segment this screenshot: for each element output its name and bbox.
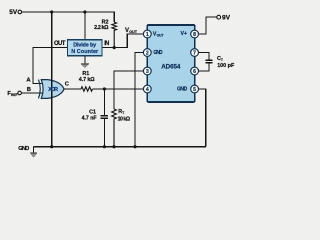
svg-text:OUT: OUT — [54, 41, 66, 47]
pin 7 — [191, 49, 199, 57]
svg-text:REF: REF — [11, 93, 18, 97]
capacitor C1 — [103, 89, 105, 115]
svg-text:2.2 kΩ: 2.2 kΩ — [94, 25, 109, 31]
junction top rail at counter supply — [83, 10, 86, 13]
pin 2 — [143, 49, 151, 57]
svg-text:GND: GND — [177, 86, 188, 92]
wire counter supply vertical — [84, 12, 86, 40]
svg-text:V+: V+ — [181, 31, 188, 37]
wire top 5V rail with corner into R2 — [22, 12, 115, 22]
svg-text:XOR: XOR — [48, 87, 58, 93]
svg-text:6: 6 — [193, 69, 196, 75]
wire counter IN to R2 junction and up to pin 1 — [102, 34, 143, 48]
svg-text:GND: GND — [18, 146, 29, 152]
wire pin 2 down to ground rail — [135, 53, 143, 147]
svg-text:9 V: 9 V — [222, 15, 231, 22]
svg-text:GND: GND — [153, 50, 163, 56]
svg-text:B: B — [27, 87, 31, 93]
junction top rail at XOR supply — [50, 10, 53, 13]
wire pin 3 to RT — [114, 71, 143, 109]
wire XOR supply vertical — [51, 12, 53, 147]
divide-by-N counter box — [68, 40, 103, 56]
svg-text:OUT: OUT — [157, 34, 164, 38]
svg-text:5 V: 5 V — [9, 9, 18, 16]
junction R2 bottom on IN wire — [113, 46, 116, 49]
wire XOR input B — [22, 92, 43, 94]
svg-text:N Counter: N Counter — [71, 49, 99, 55]
svg-text:3: 3 — [146, 69, 149, 75]
xor gate U2 body — [41, 80, 64, 99]
wire pin 5 to ground rail — [199, 89, 206, 147]
node 9V terminal circle — [217, 15, 221, 19]
svg-text:4.7 kΩ: 4.7 kΩ — [79, 77, 95, 83]
resistor RT — [112, 109, 117, 147]
svg-text:10 kΩ: 10 kΩ — [118, 116, 130, 122]
node FREF terminal circle — [18, 91, 22, 95]
svg-text:1: 1 — [146, 32, 149, 38]
svg-text:IN: IN — [104, 41, 109, 47]
resistor R1 — [81, 87, 93, 91]
junction pin2 wire at rail — [133, 145, 136, 148]
junction C1 at rail — [103, 145, 106, 148]
wire R1 to pin 4 — [93, 88, 144, 90]
svg-text:100 pF: 100 pF — [217, 63, 235, 69]
svg-text:2: 2 — [146, 50, 149, 56]
ground arrow bottom left — [33, 147, 35, 153]
wire pin 8 to 9V — [199, 17, 217, 34]
ground under counter — [84, 56, 86, 64]
junction RT at rail — [112, 145, 115, 148]
wire counter OUT feedback to XOR input A — [33, 48, 68, 84]
ground rail bottom — [34, 146, 206, 148]
pin 4 — [143, 85, 151, 93]
svg-text:4: 4 — [146, 87, 149, 93]
pin 1 — [143, 30, 151, 38]
capacitor CT — [206, 59, 213, 61]
pin 6 — [191, 67, 199, 75]
xor gate input arc — [39, 80, 41, 99]
svg-text:4.7 nF: 4.7 nF — [82, 115, 97, 121]
svg-text:8: 8 — [193, 32, 196, 38]
svg-text:T: T — [122, 111, 124, 115]
svg-text:AD654: AD654 — [161, 64, 181, 71]
pin 8 — [191, 30, 199, 38]
node 5V terminal circle — [18, 10, 22, 14]
wire XOR output to R1 — [64, 88, 81, 90]
svg-text:R1: R1 — [82, 71, 89, 77]
pin 5 — [191, 85, 199, 93]
wire pin 7 to CT — [199, 53, 210, 61]
junction C1 tap — [103, 87, 106, 90]
resistor R2 — [112, 22, 117, 47]
pin 3 — [143, 67, 151, 75]
svg-text:T: T — [221, 58, 223, 62]
junction XOR supply at rail — [50, 145, 53, 148]
svg-text:7: 7 — [193, 50, 196, 56]
svg-text:Divide by: Divide by — [73, 42, 97, 48]
IC U1 AD654 body — [147, 25, 194, 102]
svg-text:OUT: OUT — [129, 30, 137, 34]
svg-text:5: 5 — [193, 87, 196, 93]
